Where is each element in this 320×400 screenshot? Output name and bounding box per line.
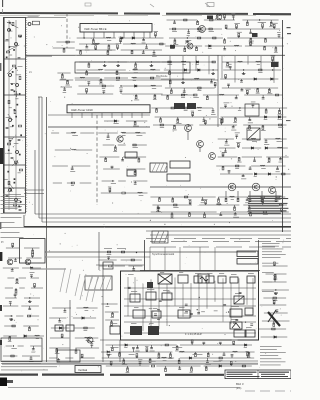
wire xyxy=(135,94,137,97)
transistor Q6 xyxy=(197,141,204,148)
wire xyxy=(123,132,146,134)
wire xyxy=(59,79,73,81)
capacitor C24 xyxy=(229,66,232,67)
value label xyxy=(245,201,249,204)
corner blob xyxy=(0,378,7,387)
wire xyxy=(135,61,160,63)
capacitor C56 xyxy=(157,207,160,208)
wire xyxy=(223,352,225,355)
value label xyxy=(278,126,283,129)
wire xyxy=(80,357,95,359)
capacitor C16 xyxy=(102,91,105,92)
signal annotation text xyxy=(248,196,282,197)
wire xyxy=(274,278,276,282)
resistor R19 xyxy=(67,81,69,84)
resistor R33 xyxy=(116,71,118,74)
resistor R151 xyxy=(34,284,36,287)
resistor R55 xyxy=(197,37,200,39)
resistor R17 xyxy=(63,49,65,52)
wire xyxy=(228,171,230,174)
wire xyxy=(203,343,205,345)
diode D7 xyxy=(184,69,186,71)
resistor R29 xyxy=(131,50,133,53)
chroma decoder module outline xyxy=(121,271,259,340)
diode D27 xyxy=(274,336,276,338)
vert driver outline xyxy=(57,350,80,362)
wire xyxy=(61,73,63,76)
capacitor C8 xyxy=(19,209,22,210)
wire xyxy=(254,157,256,161)
wire xyxy=(15,258,17,261)
wire xyxy=(150,196,215,198)
value label xyxy=(8,340,12,343)
filter trimmer xyxy=(8,29,11,32)
ground xyxy=(28,300,32,303)
wire xyxy=(24,247,40,249)
resistor R44 xyxy=(224,15,226,18)
resistor R28 xyxy=(117,45,119,48)
deflection annotation xyxy=(129,353,135,356)
block label xyxy=(219,272,224,275)
tuner pin lead xyxy=(83,32,85,38)
wire xyxy=(191,366,193,369)
decoder feed drop xyxy=(164,247,166,270)
IF takeoff vertical xyxy=(217,55,219,127)
wire xyxy=(118,144,126,146)
wire xyxy=(30,277,39,279)
wire xyxy=(262,125,264,128)
decoder interconnect xyxy=(124,321,256,323)
capacitor C45 xyxy=(265,141,268,142)
resistor R100 xyxy=(177,119,179,122)
block label xyxy=(231,273,237,276)
tuner pin lead xyxy=(123,32,125,38)
filter detail xyxy=(9,140,11,142)
capacitor C65 xyxy=(233,322,236,323)
resistor R90 xyxy=(138,159,140,162)
value label xyxy=(10,125,13,128)
resistor R38 xyxy=(86,89,88,92)
value label xyxy=(191,110,194,113)
wire xyxy=(187,131,189,140)
column tap xyxy=(24,189,44,191)
junction xyxy=(120,85,121,86)
UHF pin lead xyxy=(91,113,93,118)
capacitor C20 xyxy=(187,32,190,33)
wire xyxy=(102,357,174,359)
value label xyxy=(273,278,277,281)
wire xyxy=(60,86,72,88)
filter detail xyxy=(9,29,11,31)
resistor R127 xyxy=(261,196,264,198)
wire xyxy=(264,138,287,140)
value label xyxy=(276,170,280,173)
wire xyxy=(101,303,117,305)
capacitor C11 xyxy=(85,47,88,48)
diode D25 xyxy=(189,357,191,359)
resistor R172 xyxy=(207,353,209,356)
filter detail xyxy=(15,163,17,165)
resistor R80 xyxy=(181,94,184,96)
wire xyxy=(273,321,275,325)
value label xyxy=(86,339,91,342)
inductor L26 xyxy=(230,195,235,198)
wire xyxy=(76,307,97,309)
filter detail xyxy=(14,91,16,93)
vert osc box B xyxy=(66,325,74,331)
value label xyxy=(55,352,60,355)
table annotation xyxy=(260,357,281,360)
column left edge dark xyxy=(3,18,5,214)
capacitor C92 xyxy=(223,354,226,355)
wire xyxy=(86,44,88,47)
wire xyxy=(108,258,110,261)
capacitor C77 xyxy=(30,275,33,276)
inductor L9 xyxy=(151,84,156,87)
IF vertical lead xyxy=(273,56,275,83)
wire xyxy=(172,197,174,200)
diode D20 xyxy=(82,317,84,319)
wire xyxy=(110,363,112,366)
value label xyxy=(126,371,130,374)
junction xyxy=(136,252,137,253)
wire xyxy=(221,117,223,121)
junction xyxy=(187,37,188,38)
decoder vertical lead xyxy=(150,279,152,334)
capacitor C49 xyxy=(249,168,252,169)
capacitor C66 xyxy=(190,313,193,314)
value label xyxy=(10,82,15,85)
value label xyxy=(248,122,253,125)
capacitor C55 xyxy=(248,208,251,209)
wire xyxy=(242,156,262,158)
value label xyxy=(16,73,21,76)
wire xyxy=(135,62,137,66)
resistor R135 xyxy=(280,204,283,206)
wire xyxy=(66,132,75,134)
brightness box xyxy=(178,310,190,318)
wire xyxy=(220,107,287,109)
wire xyxy=(32,255,34,258)
capacitor C42 xyxy=(232,127,235,128)
footer rule xyxy=(8,387,240,389)
value label xyxy=(63,91,67,94)
value label xyxy=(224,102,230,105)
wire xyxy=(11,268,13,270)
wire xyxy=(106,365,150,367)
value label xyxy=(36,337,39,340)
wire xyxy=(29,315,39,317)
value label xyxy=(217,202,221,205)
value label xyxy=(274,291,278,294)
wire xyxy=(180,344,252,346)
wire xyxy=(242,138,261,140)
resistor R146 xyxy=(12,243,14,246)
value label xyxy=(110,325,114,328)
wire xyxy=(88,62,90,66)
wire xyxy=(29,306,31,309)
emitter resistor lead xyxy=(225,191,227,200)
resistor R86 xyxy=(134,122,136,125)
resistor R93 xyxy=(122,192,125,194)
wire xyxy=(146,350,148,353)
wire xyxy=(71,166,73,169)
block label xyxy=(246,326,252,329)
diode D11 xyxy=(114,120,116,122)
antenna socket xyxy=(28,23,31,26)
wire xyxy=(169,28,222,30)
decoder interconnect xyxy=(124,332,256,334)
resistor R177 xyxy=(178,360,180,363)
diode D12 xyxy=(265,116,267,118)
wire xyxy=(114,145,116,149)
wire xyxy=(104,120,119,122)
wire xyxy=(79,85,115,87)
value label xyxy=(238,109,241,112)
wire xyxy=(80,182,92,184)
wire xyxy=(108,61,127,63)
junction xyxy=(245,322,246,323)
wire xyxy=(134,169,136,173)
clamp box xyxy=(245,308,253,315)
wire xyxy=(205,202,207,205)
wire xyxy=(222,87,278,89)
resistor R194 xyxy=(272,328,275,330)
resistor R92 xyxy=(109,188,111,191)
capacitor C35 xyxy=(111,166,114,167)
filter detail xyxy=(8,149,10,151)
deflection annotation xyxy=(172,346,182,349)
value label xyxy=(172,129,176,132)
value label xyxy=(107,351,111,354)
vertical deflection label box xyxy=(75,366,101,373)
resistor R164 xyxy=(176,346,178,349)
resistor R52 xyxy=(262,24,264,27)
UHF supply line xyxy=(48,126,150,128)
filter stub xyxy=(12,160,18,166)
wire xyxy=(120,40,122,44)
block label xyxy=(207,272,212,275)
wire xyxy=(51,327,69,329)
margin annotation xyxy=(1,216,22,219)
value label xyxy=(17,171,20,174)
inductor L3 xyxy=(131,42,136,45)
wire xyxy=(106,344,177,346)
column pin ticks xyxy=(26,18,28,211)
value label xyxy=(119,87,123,90)
wire xyxy=(222,154,224,157)
capacitor C10 xyxy=(142,39,145,40)
resistor R20 xyxy=(92,40,94,43)
value label xyxy=(182,63,185,66)
feeder xyxy=(46,97,48,362)
resistor R98 xyxy=(279,110,281,113)
decoder vertical lead xyxy=(142,284,144,332)
filter trimmer xyxy=(15,199,18,202)
svg-text:Bild 3: Bild 3 xyxy=(236,382,244,386)
transistor Q8 xyxy=(228,183,236,191)
wire xyxy=(183,88,185,92)
resistor R185 xyxy=(205,367,207,370)
value label xyxy=(272,298,277,301)
wire xyxy=(170,88,172,92)
capacitor C6 xyxy=(11,157,14,158)
diode D4 xyxy=(171,45,173,47)
wire xyxy=(124,192,147,194)
wire xyxy=(280,157,282,159)
resistor R167 xyxy=(119,353,121,356)
resistor R4 xyxy=(12,65,15,67)
value label xyxy=(152,55,157,58)
diode D3 xyxy=(135,85,137,87)
inductor L30 xyxy=(85,336,90,339)
value label xyxy=(85,309,89,312)
top page edge dashed rule xyxy=(0,13,291,14)
wire xyxy=(64,87,66,90)
wire xyxy=(114,265,125,267)
value label xyxy=(107,253,112,256)
resistor R192 xyxy=(273,300,275,303)
resistor R148 xyxy=(32,253,34,256)
resistor R178 xyxy=(219,357,222,359)
decoder vertical lead xyxy=(134,277,136,302)
resistor R166 xyxy=(233,341,235,344)
capacitor C59 xyxy=(128,287,131,288)
wire xyxy=(231,355,233,358)
resistor R190 xyxy=(274,277,276,280)
decoder interconnect xyxy=(124,305,256,307)
wire xyxy=(225,106,227,108)
wire xyxy=(204,122,206,125)
blanking box xyxy=(234,330,246,337)
inductor L2 xyxy=(95,42,100,45)
wire xyxy=(77,37,116,39)
RGB annotation xyxy=(262,290,274,293)
resistor R107 xyxy=(220,120,222,123)
wire xyxy=(122,37,164,39)
value label xyxy=(182,93,187,96)
resistor R114 xyxy=(268,158,270,161)
wire xyxy=(199,124,237,126)
capacitor C67 xyxy=(185,304,188,305)
triangle amp xyxy=(230,322,242,329)
column text row xyxy=(3,206,21,209)
wire xyxy=(206,358,208,362)
capacitor C43 xyxy=(225,142,228,143)
wire xyxy=(224,148,226,152)
value label xyxy=(264,143,269,146)
wire xyxy=(79,61,103,63)
value label xyxy=(254,175,257,178)
resistor R104 xyxy=(160,124,163,126)
capacitor C64 xyxy=(154,314,157,315)
capacitor C57 xyxy=(219,214,222,215)
margin annotation xyxy=(1,207,18,210)
wire xyxy=(204,212,206,216)
wire xyxy=(23,325,38,327)
inductor L27 xyxy=(217,203,222,206)
electrolytic C215 xyxy=(170,45,175,49)
wire xyxy=(123,43,166,45)
wire xyxy=(207,352,209,355)
value label xyxy=(237,31,242,34)
capacitor C58 xyxy=(234,214,237,215)
wire xyxy=(237,145,239,148)
decoder vertical lead xyxy=(222,278,224,321)
resistor R113 xyxy=(238,158,240,161)
wire xyxy=(112,312,114,315)
resistor R181 xyxy=(127,368,129,371)
IF vertical lead xyxy=(260,56,262,70)
wire xyxy=(103,92,105,95)
wire xyxy=(249,166,251,169)
value label xyxy=(233,121,237,124)
wire xyxy=(204,365,252,367)
decoder feed xyxy=(144,240,146,271)
value label xyxy=(241,329,245,332)
value label xyxy=(7,190,12,193)
wire xyxy=(153,50,155,53)
resistor R134 xyxy=(262,200,264,203)
value label xyxy=(201,201,205,204)
resistor R5 xyxy=(19,76,21,79)
value label xyxy=(231,12,235,15)
block label xyxy=(179,271,183,274)
wire xyxy=(31,287,43,289)
video entry wire xyxy=(96,264,144,266)
inductor L7 xyxy=(80,76,85,79)
value label xyxy=(197,30,202,33)
resistor R49 xyxy=(209,28,212,30)
value label xyxy=(106,353,111,356)
resistor R46 xyxy=(270,22,272,25)
RGB annotation xyxy=(262,271,274,274)
value label xyxy=(205,363,211,366)
value label xyxy=(152,87,156,90)
value label xyxy=(278,114,284,117)
wire xyxy=(4,325,15,327)
table annotation xyxy=(260,348,277,351)
value label xyxy=(57,362,60,365)
video driver box xyxy=(110,326,120,334)
wire xyxy=(262,95,264,98)
UHF pin lead xyxy=(121,113,123,118)
resistor R68 xyxy=(227,62,229,65)
wire xyxy=(6,247,19,249)
wire xyxy=(206,95,208,98)
value label xyxy=(272,22,278,25)
IF filter module 2 xyxy=(187,103,196,109)
UHF pin lead xyxy=(141,113,143,118)
capacitor C54 xyxy=(246,199,249,200)
transistor Q3 xyxy=(187,43,193,49)
wire xyxy=(4,315,13,317)
resistor R109 xyxy=(262,126,264,129)
wire xyxy=(264,46,266,48)
ground xyxy=(103,64,107,67)
resistor R161 xyxy=(81,354,83,357)
capacitor C4 xyxy=(6,127,9,128)
wire xyxy=(276,311,278,313)
capacitor C9 xyxy=(63,89,66,90)
capacitor C69 xyxy=(157,310,160,311)
bus wire A horizontal xyxy=(35,213,291,215)
decoder feed drop xyxy=(149,247,151,270)
voltage table text xyxy=(262,256,281,259)
capacitor C25 xyxy=(210,82,213,83)
value label xyxy=(30,271,35,274)
capacitor C88 xyxy=(150,347,153,348)
